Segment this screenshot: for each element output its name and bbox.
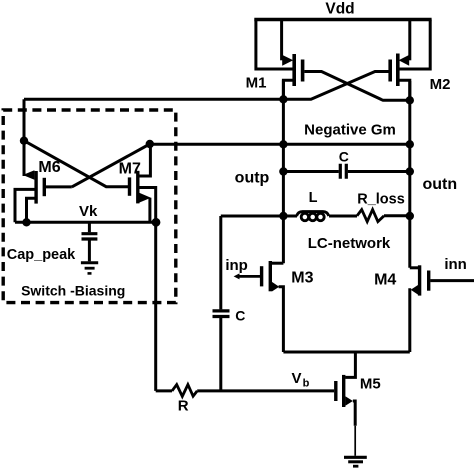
wire M2 drain drop with arrow bbox=[408, 20, 411, 61]
wire M5 source down thick bbox=[353, 401, 355, 426]
wire right rail bbox=[408, 81, 411, 268]
wire outp to cap plate bbox=[283, 170, 338, 173]
wire R to M5 gate bbox=[197, 389, 334, 392]
wire M6 bulk contact bbox=[15, 189, 36, 222]
svg-text:V: V bbox=[291, 370, 301, 387]
svg-text:Vdd: Vdd bbox=[325, 1, 354, 18]
wire M5 source down thin bbox=[354, 426, 356, 456]
arrow M3 source bbox=[272, 282, 279, 292]
wire cap plate to outn bbox=[348, 170, 410, 173]
ground M5 bbox=[344, 456, 367, 459]
wire M3 drain contact bbox=[270, 262, 283, 265]
svg-text:Cap_peak: Cap_peak bbox=[7, 247, 76, 263]
wire M6 gate bbox=[46, 185, 72, 188]
arrow M6 drain bbox=[23, 170, 35, 179]
resistor R bbox=[172, 385, 197, 397]
wire cross-couple M7 drain to M6 gate bbox=[72, 144, 150, 187]
wire inn to M4 gate bbox=[430, 279, 474, 282]
svg-text:M5: M5 bbox=[360, 376, 381, 393]
arrow M2 bbox=[399, 55, 410, 66]
svg-text:M2: M2 bbox=[430, 76, 451, 93]
capacitor C plates bbox=[340, 164, 346, 179]
transistor M3 gate bar bbox=[260, 266, 263, 286]
capacitor C (bias) plates bbox=[213, 311, 230, 317]
transistor M4 gate bar bbox=[427, 271, 430, 291]
transistor M1 gate bar bbox=[301, 60, 305, 82]
arrow inp bbox=[234, 273, 240, 279]
svg-text:M6: M6 bbox=[38, 159, 60, 176]
capacitor Cap_peak plates bbox=[82, 234, 98, 239]
svg-text:M7: M7 bbox=[119, 161, 141, 178]
transistor M7 channel bar bbox=[136, 171, 139, 204]
wire C-branch vertical lower bbox=[219, 318, 222, 391]
wire M7 source down bbox=[148, 198, 151, 223]
node M1 drain bbox=[279, 95, 287, 103]
wire M6 source contact bbox=[27, 198, 37, 222]
svg-text:L: L bbox=[309, 190, 318, 206]
transistor M2 gate bar bbox=[388, 60, 392, 82]
wire Vk rail bbox=[15, 221, 157, 224]
node right rail / gm line bbox=[406, 140, 414, 148]
wire M2 source drop (outer right) bbox=[398, 20, 430, 70]
inductor L coil bbox=[301, 213, 308, 220]
wire Cap_peak to ground bbox=[88, 240, 91, 261]
wire M2 bottom contact bbox=[398, 80, 410, 100]
node M2 drain bbox=[406, 96, 414, 104]
svg-text:R: R bbox=[178, 398, 189, 415]
svg-text:M3: M3 bbox=[291, 270, 313, 287]
wire M1 drain drop with arrow bbox=[280, 20, 283, 61]
arrow M5 source bbox=[345, 396, 353, 406]
wire L to R_loss bbox=[329, 215, 357, 218]
transistor M4 channel bar bbox=[418, 265, 421, 295]
svg-text:LC-network: LC-network bbox=[308, 235, 391, 252]
wire M1 bottom contact bbox=[283, 80, 294, 99]
transistor M2 channel bar bbox=[396, 54, 400, 87]
Vdd rail bbox=[254, 18, 431, 21]
wire M1 source drop (outer left) bbox=[256, 20, 293, 70]
capacitor Cap_peak stub bbox=[88, 222, 91, 232]
wire C-branch top: L node to bend bbox=[221, 215, 297, 218]
wire M7 bulk contact bbox=[138, 188, 156, 223]
node outp bbox=[279, 167, 287, 175]
resistor R_loss bbox=[357, 210, 384, 222]
svg-text:Negative Gm: Negative Gm bbox=[304, 122, 396, 139]
svg-text:inn: inn bbox=[444, 256, 467, 273]
wire drop into box (M6 drain feed) bbox=[23, 99, 26, 176]
wire switch-biasing output down to R bbox=[154, 222, 157, 391]
wire tail join bbox=[283, 351, 409, 354]
wire M5 drain drop bbox=[345, 352, 355, 377]
wire C-branch vertical upper bbox=[219, 216, 222, 309]
wire M3 source down bbox=[279, 287, 284, 352]
wire left rail bbox=[282, 80, 285, 263]
svg-text:inp: inp bbox=[225, 257, 248, 274]
wire cross-couple M2 gate to M1 drain node bbox=[283, 72, 388, 100]
wire Vb line from switch-biasing drop to M5 gate bbox=[156, 389, 172, 392]
transistor M3 channel bar bbox=[269, 261, 272, 291]
transistor M1 channel bar bbox=[292, 54, 296, 86]
switch-biasing dashed box bbox=[3, 110, 176, 303]
node outn bbox=[406, 167, 414, 175]
svg-text:C: C bbox=[235, 308, 245, 324]
wire M4 drain contact bbox=[410, 266, 420, 269]
transistor M5 gate bar bbox=[334, 381, 337, 401]
svg-text:M1: M1 bbox=[246, 75, 267, 92]
node L left bbox=[279, 212, 287, 220]
node M7 source/rail bbox=[152, 218, 161, 227]
svg-text:Switch -Biasing: Switch -Biasing bbox=[21, 283, 125, 299]
arrow M1 bbox=[282, 55, 293, 66]
transistor M6 gate bar bbox=[43, 178, 46, 196]
svg-text:outn: outn bbox=[422, 176, 457, 193]
ground Cap_peak bbox=[81, 261, 98, 264]
wire M4 source down bbox=[410, 290, 411, 352]
arrow M7 source bbox=[140, 193, 151, 203]
wire R_loss to outn rail bbox=[384, 214, 410, 217]
wire M7 drain contact bbox=[138, 144, 151, 176]
wire from switch-biasing to M1 drain node bbox=[24, 98, 283, 101]
wire inp to M3 gate bbox=[237, 275, 261, 278]
svg-text:b: b bbox=[303, 378, 310, 390]
node left rail / gm line bbox=[279, 140, 287, 148]
wire cross-couple M1 gate to M2 drain node bbox=[304, 72, 409, 101]
svg-text:C: C bbox=[339, 149, 349, 165]
svg-text:Vk: Vk bbox=[79, 203, 98, 220]
transistor M7 gate bar bbox=[128, 177, 131, 195]
arrow M4 source bbox=[411, 285, 418, 295]
svg-text:M4: M4 bbox=[374, 272, 396, 289]
svg-text:R_loss: R_loss bbox=[357, 192, 405, 208]
node M6 drain bbox=[20, 137, 28, 145]
node R_loss right bbox=[406, 212, 414, 220]
wire negative-gm bottom line (M7 drain to right rail) bbox=[150, 143, 410, 146]
node M6 source/rail bbox=[22, 218, 30, 226]
node M7 drain bbox=[146, 140, 154, 148]
svg-text:outp: outp bbox=[235, 169, 270, 186]
transistor M6 channel bar bbox=[34, 171, 37, 204]
transistor M5 channel bar bbox=[342, 375, 345, 407]
wire cross-couple M6 drain to M7 gate bbox=[24, 141, 128, 187]
